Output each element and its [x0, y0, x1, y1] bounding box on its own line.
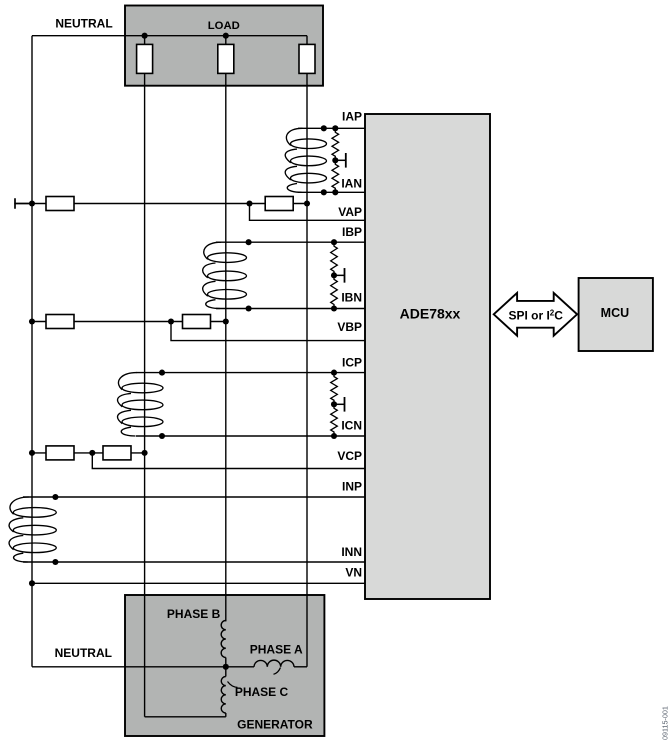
svg-text:PHASE C: PHASE C [235, 685, 289, 699]
svg-text:VAP: VAP [338, 205, 362, 219]
svg-text:IAN: IAN [341, 176, 362, 190]
svg-text:PHASE B: PHASE B [167, 607, 221, 621]
svg-text:VCP: VCP [337, 449, 362, 463]
svg-text:INN: INN [341, 545, 362, 559]
svg-text:PHASE A: PHASE A [250, 643, 303, 657]
svg-text:VBP: VBP [337, 320, 362, 334]
svg-text:IBP: IBP [342, 225, 362, 239]
svg-text:INP: INP [342, 479, 362, 493]
svg-text:LOAD: LOAD [208, 20, 240, 32]
svg-text:GENERATOR: GENERATOR [237, 718, 313, 732]
svg-text:VN: VN [345, 566, 362, 580]
svg-text:SPI or I2C: SPI or I2C [508, 308, 563, 322]
svg-text:ADE78xx: ADE78xx [400, 305, 461, 321]
svg-text:09115-001: 09115-001 [661, 706, 670, 740]
svg-text:IBN: IBN [341, 290, 362, 304]
svg-text:NEUTRAL: NEUTRAL [55, 646, 112, 660]
svg-text:IAP: IAP [342, 110, 362, 124]
svg-text:NEUTRAL: NEUTRAL [55, 17, 112, 31]
svg-text:ICN: ICN [341, 418, 362, 432]
svg-text:MCU: MCU [601, 306, 629, 320]
svg-text:ICP: ICP [342, 356, 362, 370]
